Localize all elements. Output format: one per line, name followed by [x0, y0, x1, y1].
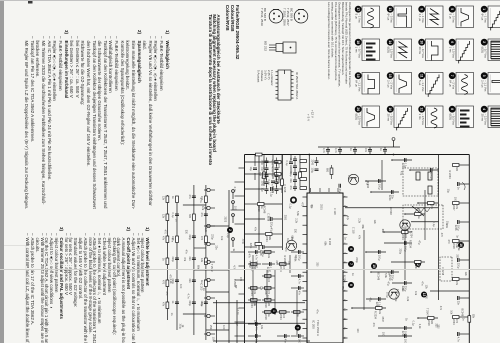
- svg-text:1k: 1k: [171, 196, 174, 199]
- svg-text:330: 330: [430, 320, 433, 325]
- svg-text:22n: 22n: [457, 301, 460, 306]
- svg-text:15: 15: [388, 74, 392, 78]
- svg-text:100µ: 100µ: [261, 160, 264, 166]
- svg-text:4: 4: [482, 108, 486, 110]
- svg-text:2,2k: 2,2k: [394, 297, 397, 302]
- svg-text:2244: 2244: [401, 163, 404, 169]
- svg-text:3: 3: [482, 75, 486, 77]
- svg-text:3 (R-Y): 3 (R-Y): [263, 70, 267, 80]
- svg-text:0,1µ: 0,1µ: [171, 213, 174, 218]
- svg-text:47n: 47n: [298, 291, 301, 296]
- svg-text:T 2547: T 2547: [403, 223, 406, 231]
- svg-text:Oszillogramme gemessen mit Far: Oszillogramme gemessen mit Farbbalkengen…: [348, 2, 352, 88]
- svg-text:100µ: 100µ: [311, 168, 314, 174]
- svg-text:R 2234: R 2234: [283, 255, 286, 264]
- svg-text:12k: 12k: [201, 206, 204, 211]
- svg-text:C 118: C 118: [333, 208, 336, 215]
- svg-text:1k: 1k: [404, 318, 407, 321]
- svg-text:470: 470: [200, 236, 203, 241]
- svg-text:330: 330: [455, 167, 458, 172]
- svg-text:100: 100: [267, 278, 270, 283]
- svg-text:82k: 82k: [472, 314, 475, 319]
- svg-text:100µ: 100µ: [298, 255, 301, 261]
- svg-text:10k: 10k: [378, 310, 381, 315]
- svg-text:0,1µ: 0,1µ: [285, 161, 288, 166]
- svg-text:10: 10: [372, 264, 376, 268]
- svg-text:10k: 10k: [450, 310, 453, 315]
- svg-text:~ 1,1 Vss: ~ 1,1 Vss: [484, 80, 488, 92]
- svg-text:10µ: 10µ: [261, 167, 264, 172]
- svg-text:68k: 68k: [268, 236, 271, 241]
- svg-text:T 2544, 2549: T 2544, 2549: [260, 8, 264, 26]
- svg-text:47µ: 47µ: [369, 297, 372, 302]
- svg-text:10µ: 10µ: [446, 189, 449, 194]
- svg-text:330: 330: [316, 262, 319, 267]
- svg-text:100µ: 100µ: [430, 173, 433, 179]
- svg-text:2547: 2547: [381, 316, 384, 322]
- svg-text:6,8k: 6,8k: [286, 238, 289, 243]
- svg-text:0,1µ: 0,1µ: [289, 203, 292, 208]
- svg-text:BC548: BC548: [461, 308, 464, 316]
- svg-text:12k: 12k: [253, 302, 256, 307]
- svg-text:68k: 68k: [361, 225, 364, 230]
- svg-text:2218: 2218: [264, 314, 267, 320]
- svg-text:100µ: 100µ: [378, 184, 381, 190]
- svg-text:4,7n: 4,7n: [322, 148, 325, 153]
- svg-text:100: 100: [212, 337, 215, 342]
- svg-text:47µ: 47µ: [338, 189, 341, 194]
- svg-text:14: 14: [388, 40, 392, 44]
- svg-text:2523: 2523: [223, 217, 226, 223]
- svg-text:5 Austast: 5 Austast: [257, 70, 261, 83]
- svg-text:220p: 220p: [171, 257, 174, 263]
- svg-text:68k: 68k: [381, 229, 384, 234]
- svg-text:1k: 1k: [267, 314, 270, 317]
- svg-text:100: 100: [266, 295, 269, 300]
- svg-text:220p: 220p: [188, 301, 191, 307]
- svg-text:1n: 1n: [462, 318, 465, 321]
- svg-text:Bildeinstellung, Tastkopf mit: Bildeinstellung, Tastkopf mit 10:1 Teile…: [341, 2, 345, 75]
- svg-text:47n: 47n: [439, 306, 442, 311]
- svg-text:47n: 47n: [184, 250, 187, 255]
- svg-text:R 2234: R 2234: [373, 311, 376, 320]
- svg-text:5: 5: [450, 8, 454, 10]
- svg-text:Les oscillogrammes mesurés ave: Les oscillogrammes mesurés avec mire de …: [327, 2, 331, 80]
- svg-text:~ 2 Vss: ~ 2 Vss: [390, 80, 394, 90]
- svg-text:1n: 1n: [171, 301, 174, 304]
- svg-text:2,2k: 2,2k: [406, 296, 409, 301]
- svg-text:10µ: 10µ: [249, 167, 252, 172]
- svg-text:4,7n: 4,7n: [417, 208, 420, 213]
- svg-text:1n: 1n: [170, 313, 173, 316]
- svg-text:10k: 10k: [220, 236, 223, 241]
- svg-text:47µ: 47µ: [399, 171, 402, 176]
- svg-text:2219: 2219: [388, 275, 391, 281]
- svg-text:470: 470: [455, 319, 458, 324]
- svg-text:47n: 47n: [171, 238, 174, 243]
- svg-text:1k: 1k: [232, 248, 235, 251]
- svg-text:9: 9: [296, 327, 300, 329]
- svg-text:47k: 47k: [161, 302, 164, 307]
- svg-text:470: 470: [301, 202, 304, 207]
- svg-text:47µ: 47µ: [346, 216, 349, 221]
- svg-text:22n: 22n: [275, 260, 278, 265]
- svg-text:T 2547: T 2547: [248, 261, 251, 269]
- svg-text:12k: 12k: [161, 196, 164, 201]
- svg-text:2551: 2551: [283, 215, 286, 221]
- svg-text:47µ: 47µ: [261, 252, 264, 257]
- svg-text:47n: 47n: [255, 327, 258, 332]
- svg-text:220p: 220p: [261, 174, 264, 180]
- svg-text:330: 330: [294, 229, 297, 234]
- svg-text:LZ 70: LZ 70: [236, 308, 239, 315]
- svg-text:1n: 1n: [455, 235, 458, 238]
- svg-text:4,7n: 4,7n: [233, 187, 236, 192]
- svg-text:47n: 47n: [372, 323, 375, 328]
- svg-text:47k: 47k: [161, 236, 164, 241]
- svg-text:10µ: 10µ: [287, 261, 290, 266]
- svg-text:47k: 47k: [183, 257, 186, 262]
- svg-text:~ 0,7 Vss: ~ 0,7 Vss: [358, 47, 362, 59]
- svg-text:220p: 220p: [249, 243, 252, 249]
- svg-text:10µ: 10µ: [261, 188, 264, 193]
- svg-text:47n: 47n: [364, 148, 367, 153]
- svg-text:+12 V: +12 V: [311, 110, 315, 118]
- svg-text:68k: 68k: [324, 241, 327, 246]
- svg-text:47k: 47k: [248, 254, 251, 259]
- svg-text:220p: 220p: [398, 249, 401, 255]
- svg-text:R 234: R 234: [328, 238, 331, 245]
- svg-text:1k: 1k: [296, 314, 299, 317]
- svg-text:100: 100: [356, 328, 359, 333]
- svg-text:C 118: C 118: [352, 227, 355, 234]
- svg-text:C 2218: C 2218: [283, 184, 286, 193]
- svg-text:~ 0,3 Vss: ~ 0,3 Vss: [452, 114, 456, 126]
- svg-text:10µ: 10µ: [289, 158, 292, 163]
- svg-text:22n: 22n: [391, 195, 394, 200]
- svg-text:47k: 47k: [430, 205, 433, 210]
- svg-text:16: 16: [388, 107, 392, 111]
- svg-text:0,1µ: 0,1µ: [432, 222, 435, 227]
- svg-text:470: 470: [163, 230, 166, 235]
- svg-text:~ 1 Vss: ~ 1 Vss: [484, 14, 488, 24]
- svg-text:BP: BP: [235, 323, 238, 327]
- svg-text:5,6k: 5,6k: [293, 257, 296, 262]
- svg-text:2551: 2551: [319, 204, 322, 210]
- svg-text:10: 10: [419, 40, 423, 44]
- svg-text:1n: 1n: [351, 273, 354, 276]
- svg-text:+ 5 V: + 5 V: [307, 114, 311, 121]
- svg-text:10k: 10k: [253, 290, 256, 295]
- svg-text:22n: 22n: [215, 245, 218, 250]
- svg-text:2236: 2236: [454, 225, 457, 231]
- svg-text:~ 1,5 Vss: ~ 1,5 Vss: [390, 47, 394, 59]
- svg-text:~ 3 Vss: ~ 3 Vss: [452, 14, 456, 24]
- svg-text:330: 330: [188, 214, 191, 219]
- svg-text:BP: BP: [234, 285, 237, 289]
- svg-text:47n: 47n: [200, 213, 203, 218]
- svg-text:470: 470: [447, 239, 450, 244]
- svg-text:4,7n: 4,7n: [271, 181, 274, 186]
- svg-text:470: 470: [284, 247, 287, 252]
- svg-text:setting, probe connected with: setting, probe connected with 10:1 divid…: [331, 2, 335, 58]
- svg-text:1n: 1n: [349, 148, 352, 151]
- svg-text:BC548: BC548: [262, 206, 265, 214]
- svg-text:1n: 1n: [343, 237, 346, 240]
- svg-text:12k: 12k: [373, 220, 376, 225]
- svg-text:0,1µ: 0,1µ: [226, 233, 229, 238]
- svg-text:R 234: R 234: [342, 275, 345, 282]
- svg-text:R 2234: R 2234: [409, 240, 412, 249]
- svg-text:330: 330: [185, 230, 188, 235]
- svg-text:100: 100: [282, 314, 285, 319]
- svg-text:12k: 12k: [464, 272, 467, 277]
- svg-text:IC 2520 TDA 3562 A: IC 2520 TDA 3562 A: [295, 72, 299, 99]
- svg-text:~ 0,3 Vss: ~ 0,3 Vss: [390, 114, 394, 126]
- svg-text:47k: 47k: [455, 281, 458, 286]
- svg-text:~ 1,1 Vss: ~ 1,1 Vss: [421, 80, 425, 92]
- svg-text:2523: 2523: [209, 325, 212, 331]
- svg-text:4,7n: 4,7n: [298, 279, 301, 284]
- svg-text:2,2k: 2,2k: [418, 324, 421, 329]
- svg-text:470: 470: [165, 291, 168, 296]
- svg-text:330: 330: [267, 302, 270, 307]
- svg-text:10k: 10k: [414, 291, 417, 296]
- svg-text:~ 2,5 Vss: ~ 2,5 Vss: [484, 114, 488, 126]
- svg-text:47µ: 47µ: [418, 240, 421, 245]
- svg-text:47n: 47n: [315, 309, 318, 314]
- svg-text:100: 100: [222, 325, 225, 330]
- svg-text:2,2k: 2,2k: [358, 218, 361, 223]
- svg-text:220p: 220p: [391, 275, 394, 281]
- svg-text:0,1µ: 0,1µ: [255, 339, 258, 343]
- svg-text:220p: 220p: [188, 235, 191, 241]
- svg-text:~ 0,7 Vss: ~ 0,7 Vss: [484, 47, 488, 59]
- svg-text:T 2551, 2556: T 2551, 2556: [283, 8, 287, 26]
- svg-text:100: 100: [179, 284, 182, 289]
- svg-text:0,1µ: 0,1µ: [412, 321, 415, 326]
- svg-text:470: 470: [161, 280, 164, 285]
- svg-text:~ 3 Vss: ~ 3 Vss: [390, 14, 394, 24]
- svg-text:~ 2 Vss: ~ 2 Vss: [452, 80, 456, 90]
- svg-text:8: 8: [349, 284, 353, 286]
- svg-text:~ 2,5 Vss: ~ 2,5 Vss: [358, 114, 362, 126]
- svg-text:R 234: R 234: [366, 181, 369, 188]
- svg-text:100: 100: [381, 332, 384, 337]
- svg-text:220p: 220p: [210, 234, 213, 240]
- svg-text:18: 18: [356, 40, 360, 44]
- svg-text:17: 17: [356, 7, 360, 11]
- svg-text:BC548: BC548: [389, 207, 392, 215]
- svg-text:0,1µ: 0,1µ: [404, 163, 407, 168]
- svg-text:4,7n: 4,7n: [186, 294, 189, 299]
- svg-text:100µ: 100µ: [298, 339, 301, 343]
- svg-text:1k: 1k: [417, 216, 420, 219]
- svg-text:470: 470: [239, 277, 242, 282]
- svg-text:TDA 3562 A: TDA 3562 A: [316, 320, 320, 336]
- svg-text:2243: 2243: [311, 160, 314, 166]
- svg-text:100µ: 100µ: [404, 339, 407, 343]
- svg-text:13: 13: [388, 7, 392, 11]
- svg-text:2234: 2234: [452, 319, 455, 325]
- svg-text:~ 0,7 Vss: ~ 0,7 Vss: [421, 47, 425, 59]
- svg-text:12k: 12k: [260, 325, 263, 330]
- svg-text:2218: 2218: [427, 320, 430, 326]
- svg-text:5,6k: 5,6k: [457, 246, 460, 251]
- svg-text:12k: 12k: [260, 286, 263, 291]
- svg-text:10k: 10k: [267, 254, 270, 259]
- svg-text:100µ: 100µ: [242, 238, 245, 244]
- svg-text:1: 1: [482, 8, 486, 10]
- svg-text:10µ: 10µ: [200, 302, 203, 307]
- svg-text:PAL standard (625 lines), 75 %: PAL standard (625 lines), 75 % contrast …: [334, 2, 338, 81]
- svg-text:betrieb PAL-Normal (625 Zeilen: betrieb PAL-Normal (625 Zeilen), 75 % Ko…: [345, 2, 349, 84]
- svg-text:47µ: 47µ: [386, 281, 389, 286]
- svg-text:4,7n: 4,7n: [457, 337, 460, 342]
- svg-text:~ 1,5 Vss: ~ 1,5 Vss: [452, 47, 456, 59]
- svg-text:~ 1 Vss: ~ 1 Vss: [358, 14, 362, 24]
- svg-text:5,6k: 5,6k: [347, 175, 350, 180]
- svg-text:47n: 47n: [289, 186, 292, 191]
- svg-text:470: 470: [440, 233, 443, 238]
- svg-text:T 2547: T 2547: [426, 308, 429, 316]
- svg-text:330: 330: [424, 295, 427, 300]
- svg-text:22n: 22n: [188, 279, 191, 284]
- svg-text:100µ: 100µ: [378, 255, 381, 261]
- svg-text:12k: 12k: [200, 258, 203, 263]
- svg-text:100: 100: [453, 197, 456, 202]
- svg-text:2247: 2247: [452, 205, 455, 211]
- svg-text:22n: 22n: [188, 257, 191, 262]
- svg-text:470: 470: [404, 234, 407, 239]
- svg-text:5,6k: 5,6k: [296, 211, 299, 216]
- svg-text:1n: 1n: [457, 187, 460, 190]
- svg-text:2,2k: 2,2k: [169, 279, 172, 284]
- svg-text:Oscillograms measured with col: Oscillograms measured with colour bar ge…: [338, 2, 342, 87]
- svg-text:~ 2,5 Vss: ~ 2,5 Vss: [421, 114, 425, 126]
- svg-text:1n: 1n: [379, 148, 382, 151]
- svg-text:7: 7: [450, 75, 454, 77]
- svg-text:47µ: 47µ: [269, 228, 272, 233]
- svg-text:0,1µ: 0,1µ: [289, 172, 292, 177]
- svg-text:2: 2: [228, 229, 232, 231]
- svg-text:2234: 2234: [250, 302, 253, 308]
- svg-text:1k: 1k: [161, 258, 164, 261]
- svg-text:~ 1 Vss: ~ 1 Vss: [421, 14, 425, 24]
- svg-text:4,7n: 4,7n: [271, 167, 274, 172]
- svg-text:~ 1,1 Vss: ~ 1,1 Vss: [358, 80, 362, 92]
- svg-text:R 234: R 234: [409, 231, 412, 238]
- svg-text:47k: 47k: [358, 235, 361, 240]
- svg-text:8: 8: [450, 108, 454, 110]
- svg-text:12k: 12k: [424, 285, 427, 290]
- svg-text:47n: 47n: [254, 227, 257, 232]
- svg-text:22n: 22n: [445, 224, 448, 229]
- svg-text:2: 2: [482, 41, 486, 43]
- svg-text:220p: 220p: [355, 257, 358, 263]
- svg-text:4,7n: 4,7n: [271, 160, 274, 165]
- svg-text:12: 12: [419, 107, 423, 111]
- svg-text:9: 9: [419, 8, 423, 10]
- svg-text:2218: 2218: [264, 302, 267, 308]
- svg-text:47n: 47n: [284, 339, 287, 343]
- svg-text:19: 19: [356, 74, 360, 78]
- svg-text:4,7n: 4,7n: [334, 148, 337, 153]
- svg-text:6: 6: [349, 248, 353, 250]
- svg-text:R 2234: R 2234: [448, 170, 451, 179]
- svg-text:4,7n: 4,7n: [199, 198, 202, 203]
- svg-text:11: 11: [419, 74, 423, 78]
- svg-text:T 2547: T 2547: [254, 260, 257, 268]
- svg-text:2244: 2244: [388, 195, 391, 201]
- svg-text:BD 232: BD 232: [264, 41, 268, 51]
- svg-text:BC548: BC548: [376, 272, 379, 280]
- svg-text:100µ: 100µ: [385, 292, 388, 298]
- svg-text:330: 330: [434, 323, 437, 328]
- svg-text:2218: 2218: [452, 243, 455, 249]
- svg-text:IC 200: IC 200: [312, 320, 316, 329]
- svg-text:330: 330: [455, 254, 458, 259]
- svg-text:22n: 22n: [289, 179, 292, 184]
- svg-text:6: 6: [450, 41, 454, 43]
- svg-text:2234: 2234: [265, 236, 268, 242]
- svg-text:47n: 47n: [420, 281, 423, 286]
- svg-text:100µ: 100µ: [261, 181, 264, 187]
- svg-text:7: 7: [349, 263, 353, 265]
- svg-text:20: 20: [356, 107, 360, 111]
- svg-text:1,2k: 1,2k: [396, 289, 399, 294]
- svg-text:470: 470: [168, 274, 171, 279]
- svg-text:47k: 47k: [455, 205, 458, 210]
- svg-text:2,2k: 2,2k: [294, 218, 297, 223]
- svg-text:680: 680: [326, 168, 329, 173]
- svg-text:IC 200: IC 200: [200, 283, 203, 291]
- svg-text:47n: 47n: [188, 195, 191, 200]
- svg-text:2,2k: 2,2k: [204, 228, 207, 233]
- svg-text:0,1µ: 0,1µ: [270, 192, 273, 197]
- svg-text:2218: 2218: [257, 206, 260, 212]
- svg-text:2234: 2234: [279, 314, 282, 320]
- svg-text:2234: 2234: [401, 234, 404, 240]
- svg-text:22n: 22n: [268, 216, 271, 221]
- svg-text:100µ: 100µ: [457, 225, 460, 231]
- svg-text:12k: 12k: [161, 214, 164, 219]
- svg-text:470: 470: [267, 290, 270, 295]
